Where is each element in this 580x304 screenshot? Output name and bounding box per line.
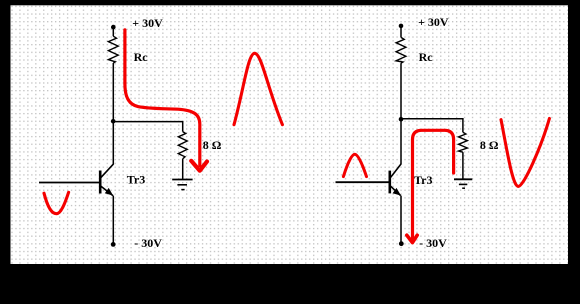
svg-text:- 30V: - 30V	[134, 236, 162, 250]
transistor Tr3 (right)	[390, 164, 401, 196]
wire: +30V node to resistor Rc (left)	[112, 27, 114, 36]
wire: emitter to -30V (right)	[400, 196, 402, 244]
wire: Rc bottom to collector (left vertical)	[112, 63, 114, 164]
red arrowhead (right circuit)	[407, 235, 417, 242]
red input waveform V (left circuit)	[44, 192, 69, 213]
emitter lead	[101, 186, 113, 195]
collector lead	[391, 164, 402, 178]
node -30V (left)	[111, 242, 116, 247]
red signal loop with arrow (right circuit)	[413, 130, 454, 238]
ground (right)	[454, 179, 472, 188]
svg-text:Rc: Rc	[419, 50, 434, 64]
wire: 8 ohm resistor to ground (left)	[182, 159, 184, 180]
node +30V (right)	[399, 24, 404, 29]
wire: base lead (left)	[39, 182, 99, 184]
svg-text:8 Ω: 8 Ω	[480, 138, 499, 152]
svg-text:Rc: Rc	[134, 50, 149, 64]
wire: Rc bottom to collector (right vertical)	[400, 63, 402, 164]
red arrowhead (left circuit)	[191, 161, 207, 171]
node +30V (left)	[111, 25, 116, 30]
red output waveform hump (left circuit)	[234, 53, 282, 124]
node -30V (right)	[399, 241, 404, 246]
resistor 8 ohm (left)	[178, 132, 187, 159]
base bar	[99, 171, 102, 194]
wire: emitter to -30V (left)	[112, 196, 114, 244]
wire: base lead (right)	[336, 181, 389, 183]
wire: junction to 8-ohm branch (right horizontal)	[401, 119, 463, 133]
emitter arrow	[105, 188, 113, 196]
red signal path curve with arrow (left circuit)	[125, 30, 200, 166]
svg-text:+ 30V: + 30V	[418, 15, 449, 29]
svg-text:+ 30V: + 30V	[132, 16, 163, 30]
node: collector junction (left)	[111, 119, 116, 124]
svg-text:Tr3: Tr3	[127, 173, 145, 187]
wire: +30V node to resistor Rc (right)	[400, 26, 402, 38]
wire: 8 ohm resistor to ground (right)	[462, 152, 464, 179]
red input waveform hump (right circuit)	[343, 154, 366, 176]
resistor Rc (left)	[108, 36, 118, 63]
resistor 8 ohm (right)	[459, 132, 468, 152]
collector lead	[101, 164, 114, 178]
node: collector junction (right)	[399, 117, 404, 122]
svg-text:- 30V: - 30V	[419, 236, 447, 250]
emitter arrow	[393, 188, 401, 196]
red output waveform V (right circuit)	[501, 119, 549, 187]
emitter lead	[391, 186, 401, 195]
transistor Tr3 (left)	[100, 164, 113, 196]
svg-text:Tr3: Tr3	[414, 173, 432, 187]
wire: junction to 8-ohm branch (left horizontal)	[113, 122, 183, 132]
resistor Rc (right)	[396, 37, 406, 63]
base bar	[388, 171, 391, 194]
ground (left)	[172, 180, 192, 190]
svg-text:8 Ω: 8 Ω	[203, 138, 222, 152]
